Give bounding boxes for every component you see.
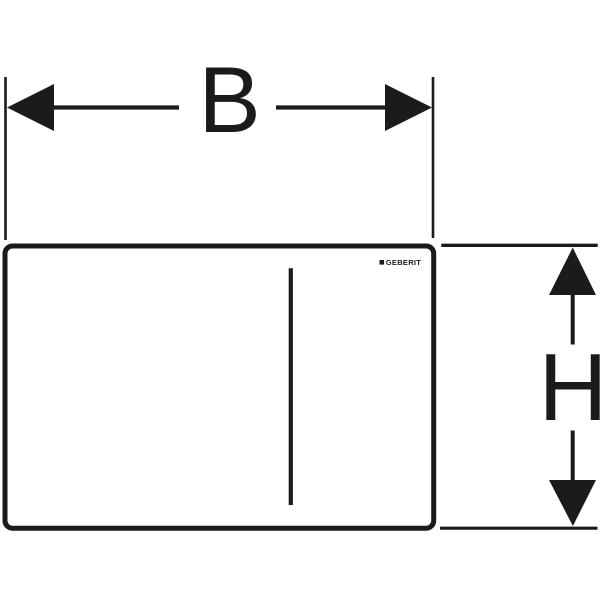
dimension H: bottom extension line	[440, 527, 598, 530]
plate center split line	[289, 268, 293, 505]
dimension B: dimension line right segment	[276, 105, 386, 109]
Geberit logo square	[380, 260, 385, 265]
dimension B: left arrowhead	[7, 84, 54, 131]
svg-text:GEBERIT: GEBERIT	[386, 258, 421, 267]
dimension H: bottom arrowhead	[549, 480, 596, 526]
svg-text:H: H	[539, 335, 600, 441]
dimension H: top extension line	[441, 244, 597, 247]
dimension H: dimension line upper segment	[571, 294, 575, 345]
dimension B: dimension line left segment	[52, 105, 179, 109]
dimension H: dimension line lower segment	[571, 431, 575, 482]
svg-text:B: B	[198, 47, 260, 152]
dimension B: right extension line	[432, 77, 435, 238]
dimension H: top arrowhead	[549, 248, 596, 296]
flush plate outline	[5, 246, 434, 528]
dimension B: left extension line	[4, 77, 7, 240]
dimension B: right arrowhead	[385, 84, 432, 131]
